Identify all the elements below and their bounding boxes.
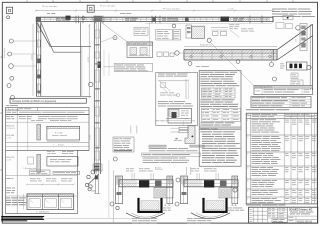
section extension lines: [196, 173, 198, 180]
dimension line above top rail: [36, 10, 273, 12]
svg-text:Pos: Pos: [247, 114, 250, 116]
section right vertical bar: [167, 176, 173, 204]
svg-text:+3,56 =OK: +3,56 =OK: [6, 128, 15, 130]
svg-text:B = 1380: B = 1380: [55, 133, 63, 135]
rail hatch texture full: [44, 18, 270, 20]
svg-text:FF unt. und oben: FF unt. und oben: [100, 5, 115, 8]
section right mid leader circle: [233, 188, 237, 192]
svg-text:3: 3: [247, 154, 248, 156]
svg-text:Wind und Wasserdicht: Wind und Wasserdicht: [128, 43, 147, 46]
rail internal ticks: [44, 18, 45, 22]
section dim texts: [191, 167, 196, 170]
tiny text below bar: [196, 65, 200, 68]
fastener tiny text: [91, 190, 96, 193]
extension lines below middle panel: [130, 126, 132, 134]
svg-text:2.Bauabschnitt: 2.Bauabschnitt: [6, 108, 19, 111]
leader circle b: [172, 24, 176, 28]
section leader circle: [175, 202, 179, 206]
svg-text:1.Bauabschnitt: 1.Bauabschnitt: [23, 167, 36, 170]
notes column part1 text: [200, 71, 213, 74]
bauabschnitt table header: [6, 108, 89, 115]
glazing strip tick text: [280, 63, 284, 66]
right axono diagonal 2: [277, 36, 313, 60]
bracket detail profile: [185, 126, 195, 144]
bracket detail dim line: [166, 120, 195, 122]
mullion leader circle mid: [89, 82, 93, 86]
bracket detail arms: [179, 127, 188, 129]
bar dim line above: [184, 46, 277, 48]
block 3 box: [30, 170, 50, 175]
extension lines right of mullion: [103, 50, 105, 76]
right vertical detail strip: [300, 24, 307, 51]
block 3 right box: [53, 171, 80, 174]
svg-text:1 : ... Schnitt: 1 : ... Schnitt: [53, 144, 64, 147]
screw shaft diagonal: [88, 174, 99, 184]
svg-text:250: 250: [296, 39, 298, 42]
elevation 1 dim texts: [31, 119, 35, 122]
middle panel section detail: [168, 109, 192, 124]
svg-text:4023S 205-00: 4023S 205-00: [297, 220, 313, 223]
fastener circles lower: [85, 183, 88, 186]
verriegelung table: [254, 86, 313, 95]
svg-text:6: 6: [247, 191, 248, 193]
svg-text:S-209: S-209: [256, 91, 261, 93]
tiny label above table: [6, 104, 9, 107]
long extension line: [108, 160, 110, 218]
right glazing strip with gaskets: [287, 62, 308, 70]
right jamb verticals: [309, 24, 311, 90]
small note box left: [113, 137, 134, 152]
texts at rail end: [241, 28, 247, 31]
wichtig numbered list: [200, 130, 212, 133]
svg-text:SCHUECO Intern. KG: SCHUECO Intern. KG: [289, 208, 312, 211]
bracket dark dot: [192, 136, 194, 138]
jamb head joint dark: [36, 18, 41, 22]
left panel column line: [16, 114, 18, 213]
left jamb vertical section: [35, 17, 37, 96]
bracket leader: [171, 131, 180, 133]
elevation 1 mullion strip: [37, 124, 41, 140]
elevation 3 pane ticks: [30, 199, 34, 203]
svg-text:A _ A: A _ A: [165, 204, 171, 207]
mullion bottom anchor details: [93, 164, 102, 171]
frame tick marks top: [26, 1, 28, 3]
axono diagonal outer: [37, 22, 50, 46]
detail circle 2: [8, 52, 12, 56]
section A-A right leader circle top: [176, 178, 180, 182]
jamb dark details: [37, 59, 40, 64]
elevation 3 vert dim: [22, 194, 24, 209]
rail dark connector block left: [66, 16, 71, 20]
section top profile: [119, 180, 173, 187]
leader circle left of section: [116, 206, 119, 209]
wichtig header bar: [199, 127, 241, 130]
line below rail right part: [145, 22, 272, 24]
elevation 3 dim line: [27, 183, 74, 185]
section mid boxes: [219, 188, 238, 198]
leader circle d: [207, 38, 211, 42]
svg-text:5: 5: [247, 181, 248, 183]
mullion detail marks: [95, 44, 99, 46]
notes subtable 1: [202, 88, 236, 98]
svg-text:Riegel 60 mm: Riegel 60 mm: [200, 45, 212, 47]
note line below: [246, 108, 259, 111]
svg-text:A - A: A - A: [232, 204, 237, 207]
elevation 2 dim texts: [47, 150, 52, 153]
section top profile: [184, 180, 238, 187]
small clip rects left of bar: [157, 52, 162, 57]
right leader circle top: [296, 26, 301, 31]
leader circle 8: [113, 36, 117, 40]
detail circle 1: [9, 39, 13, 43]
section gasket blob light: [220, 180, 227, 186]
section dim texts: [126, 167, 129, 170]
elevation 3 window 3 panes: [27, 194, 74, 210]
frame tick marks left: [1, 56, 3, 58]
drawing number box: [272, 218, 287, 222]
svg-text:7: 7: [247, 199, 248, 201]
rail dark connector block right: [221, 17, 230, 22]
disclaimer underline extension: [45, 217, 155, 219]
notes text mid: [200, 98, 211, 101]
section U core hatch: [141, 201, 159, 210]
top rail horizontal section: [36, 16, 273, 18]
left panel row lines: [6, 121, 89, 123]
middle detail panel border: [156, 73, 198, 126]
right leader circle mid: [273, 77, 277, 81]
tiny text upper: [155, 120, 159, 123]
divider line left of sections: [113, 170, 115, 223]
north symbol square: [6, 7, 12, 13]
bar leader circle left: [175, 51, 179, 55]
bar end cap: [273, 50, 275, 61]
svg-text:Verriegelungsschema: Verriegelungsschema: [255, 87, 272, 89]
glazing strip leader circle: [307, 65, 311, 69]
left panel label texts: [6, 115, 10, 118]
elevation 2 small marks: [28, 157, 34, 164]
rail text pos labels: [56, 17, 60, 20]
leader to notes column: [230, 30, 239, 37]
notes subtable 2: [202, 108, 241, 121]
axono inner horizontal top: [50, 45, 91, 47]
notes column border: [199, 71, 241, 167]
right axono diagonal 1: [277, 24, 313, 50]
parts table column lines: [249, 113, 251, 204]
axono right verticals: [80, 22, 82, 96]
wind wasser box: [127, 42, 153, 58]
middle panel text rows: [158, 100, 168, 103]
rail joint at mullion: [75, 16, 77, 24]
section extension lines: [131, 173, 133, 180]
section mid boxes: [154, 188, 173, 198]
note box right of mullion: [114, 63, 152, 71]
detail circle 3: [9, 64, 14, 69]
jamb internal blocks: [37, 25, 40, 32]
symbol circle below: [7, 16, 10, 19]
vertical dim line center-left: [88, 25, 90, 99]
left panel outer border: [6, 114, 89, 213]
svg-text:3 525: 3 525: [89, 134, 91, 140]
left dim line inner: [32, 24, 34, 96]
section right vertical bar: [232, 176, 238, 204]
svg-text:Bodenaufbau: Bodenaufbau: [4, 48, 6, 58]
title block border: [249, 207, 318, 223]
svg-text:FF unten und oben: FF unten und oben: [163, 8, 180, 11]
section bottom drip: [126, 213, 165, 219]
svg-text:a = 60: a = 60: [228, 9, 235, 11]
detail circle 4: [10, 76, 14, 80]
detail texts top middle: [229, 23, 234, 26]
section black U gasket: [139, 198, 162, 212]
svg-text:4 655: 4 655: [88, 56, 90, 62]
elevation 3 dim texts: [30, 177, 36, 180]
vertical guide line: [149, 23, 151, 58]
middle panel axono sketch: [160, 81, 171, 91]
svg-text:1: 1: [247, 120, 248, 122]
middle panel title: [158, 73, 165, 76]
projekt box: [134, 27, 148, 35]
bracket small marks: [175, 138, 177, 140]
section gasket blob light: [155, 180, 162, 186]
axono diagonal inner: [41, 22, 54, 52]
svg-text:+2,96: +2,96: [6, 138, 11, 140]
leader below bar end: [271, 60, 273, 62]
black disclaimer text bar: [1, 216, 44, 217]
extension lines above right section: [186, 167, 188, 175]
rail joint dark segment: [153, 18, 156, 22]
section left frame profile: [116, 176, 123, 204]
section left frame profile: [181, 176, 188, 204]
center mullion vertical section: [93, 22, 95, 175]
mullion top joint block: [94, 16, 102, 22]
notes text below table: [200, 121, 214, 124]
note block A title bar: [149, 145, 167, 147]
parts table row lines: [246, 134, 317, 136]
hinweis note top right: [272, 8, 287, 11]
parts table footnote: [246, 204, 261, 207]
elevation 1 window: [47, 126, 80, 140]
svg-text:FF unt. und oben: FF unt. und oben: [42, 5, 57, 8]
svg-text:4 655: 4 655: [32, 54, 34, 60]
axono bottom edge: [36, 95, 91, 97]
leader to note box: [104, 66, 115, 68]
section leader circle: [110, 202, 114, 206]
leader circle below note box: [113, 157, 117, 161]
svg-text:2: 2: [247, 137, 248, 139]
small dim marks above rail: [47, 12, 50, 15]
elevation 2 mullion strip: [37, 154, 41, 172]
bar leader circle below: [188, 62, 192, 66]
long leader to verriegelung table: [211, 43, 254, 86]
right boxes mid: [291, 73, 298, 79]
title banner Vertikale Fv: [10, 98, 86, 103]
section right bottom texts: [187, 217, 193, 220]
hatched block: [192, 26, 205, 39]
note block C rows: [143, 157, 160, 160]
svg-text:Vertikale Fv/RDL (Fv500R not a: Vertikale Fv/RDL (Fv500R not abgedeckt): [12, 100, 56, 103]
svg-text:1 : 100 Ansicht: 1 : 100 Ansicht: [36, 211, 50, 214]
detail cluster right of hatch: [211, 27, 228, 29]
svg-text:4: 4: [247, 168, 248, 170]
section left bottom texts: [132, 217, 137, 220]
detail circle 6: [11, 96, 15, 100]
detail circle 5: [7, 84, 11, 88]
dense note box 1: [156, 30, 173, 41]
section black U gasket: [204, 198, 227, 212]
elevation 2 window: [47, 157, 78, 166]
mullion glass blocks: [95, 30, 100, 38]
title mid cells: [277, 207, 279, 218]
abweichungen table: [251, 97, 311, 108]
section gasket blob dark: [204, 180, 214, 187]
bar segment ticks: [191, 50, 193, 61]
leader to rail: [102, 23, 129, 43]
title right cells: [287, 215, 318, 217]
bar screw circles: [190, 55, 192, 57]
svg-text:+0,96: +0,96: [6, 160, 11, 162]
note block B bordered row: [142, 153, 201, 156]
symbol circle 2: [82, 17, 85, 20]
svg-text:WICHTIG - Punkte: WICHTIG - Punkte: [201, 127, 219, 130]
parts table header: [246, 115, 317, 117]
dense note box 2: [173, 30, 181, 41]
right small detail cluster: [283, 15, 293, 19]
parts table outer border: [246, 113, 317, 204]
elevation 1 dim below: [47, 141, 80, 143]
transom bar elevation: [184, 50, 277, 61]
section U core hatch: [206, 201, 224, 210]
section gasket blob dark: [139, 180, 149, 187]
revision grid: [252, 207, 254, 223]
rail dark segment mid: [185, 18, 189, 22]
section bottom drip: [191, 213, 230, 219]
fastener detail cluster: [91, 170, 95, 174]
detail square symbol 2: [87, 5, 94, 12]
mullion lower narrow continuation: [95, 174, 97, 194]
mullion dark glazing block: [98, 62, 102, 69]
detail box a narrow: [186, 25, 192, 38]
bracket detail connector lines: [183, 121, 185, 126]
